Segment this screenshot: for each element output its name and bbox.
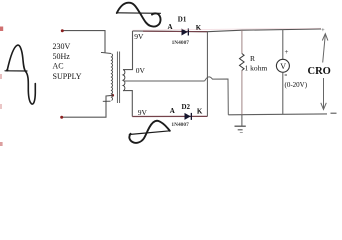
transformer T1 primary winding bbox=[101, 52, 113, 101]
node primary bottom junction bbox=[112, 94, 115, 97]
AC source sine symbol bbox=[5, 45, 35, 104]
sine symbol positive half cycle (top) bbox=[117, 3, 161, 27]
svg-text:1N4007: 1N4007 bbox=[172, 40, 190, 46]
wire bbox=[132, 115, 207, 117]
svg-text:V: V bbox=[280, 62, 286, 71]
svg-text:(0-20V): (0-20V) bbox=[285, 81, 308, 89]
svg-text:K: K bbox=[196, 24, 202, 32]
wire bbox=[123, 91, 132, 117]
wire bbox=[123, 31, 133, 70]
svg-text:D2: D2 bbox=[182, 103, 191, 111]
diode D1 bbox=[182, 29, 190, 36]
svg-text:1 kohm: 1 kohm bbox=[245, 64, 268, 73]
wire bbox=[62, 31, 105, 53]
ground bbox=[235, 115, 246, 133]
resistor R bbox=[240, 30, 245, 114]
label - (CRO terminal) bbox=[331, 112, 337, 114]
svg-text:R: R bbox=[250, 54, 255, 63]
scan edge artifacts bbox=[0, 27, 321, 147]
node supply terminal bottom bbox=[60, 116, 63, 119]
svg-text:K: K bbox=[197, 108, 203, 116]
wire (center tap hop and bend) bbox=[205, 77, 229, 115]
node supply terminal top bbox=[61, 29, 64, 32]
svg-text:50Hz: 50Hz bbox=[53, 52, 71, 61]
wire (cathode junction rail) bbox=[206, 32, 208, 117]
voltmeter V1 bbox=[276, 30, 289, 115]
wire bbox=[133, 29, 322, 32]
svg-text:CRO: CRO bbox=[308, 66, 331, 77]
svg-text:+: + bbox=[285, 48, 289, 56]
svg-text:9V: 9V bbox=[138, 108, 148, 117]
wire (center tap 0V) bbox=[123, 80, 204, 82]
svg-text:SUPPLY: SUPPLY bbox=[53, 72, 82, 81]
transformer T1 secondary winding bbox=[123, 70, 125, 91]
CRO probe arrow down bbox=[321, 78, 327, 109]
svg-text:0V: 0V bbox=[136, 66, 146, 75]
wire bbox=[62, 95, 113, 117]
svg-text:1N4007: 1N4007 bbox=[171, 122, 189, 128]
transformer T1 core bbox=[117, 52, 119, 104]
diode D2 bbox=[185, 113, 193, 120]
label 230V 50Hz AC SUPPLY bbox=[53, 42, 82, 81]
wire bbox=[143, 30, 207, 33]
svg-text:9V: 9V bbox=[134, 32, 144, 41]
svg-text:230V: 230V bbox=[53, 42, 71, 51]
svg-text:A: A bbox=[170, 107, 175, 115]
sine symbol negative half cycle (bottom) bbox=[129, 121, 170, 143]
svg-text:D1: D1 bbox=[178, 16, 187, 24]
svg-text:AC: AC bbox=[53, 61, 64, 70]
CRO probe arrow up bbox=[322, 34, 328, 63]
wire (bottom output) bbox=[228, 113, 327, 116]
label - (voltmeter polarity) bbox=[285, 74, 287, 76]
